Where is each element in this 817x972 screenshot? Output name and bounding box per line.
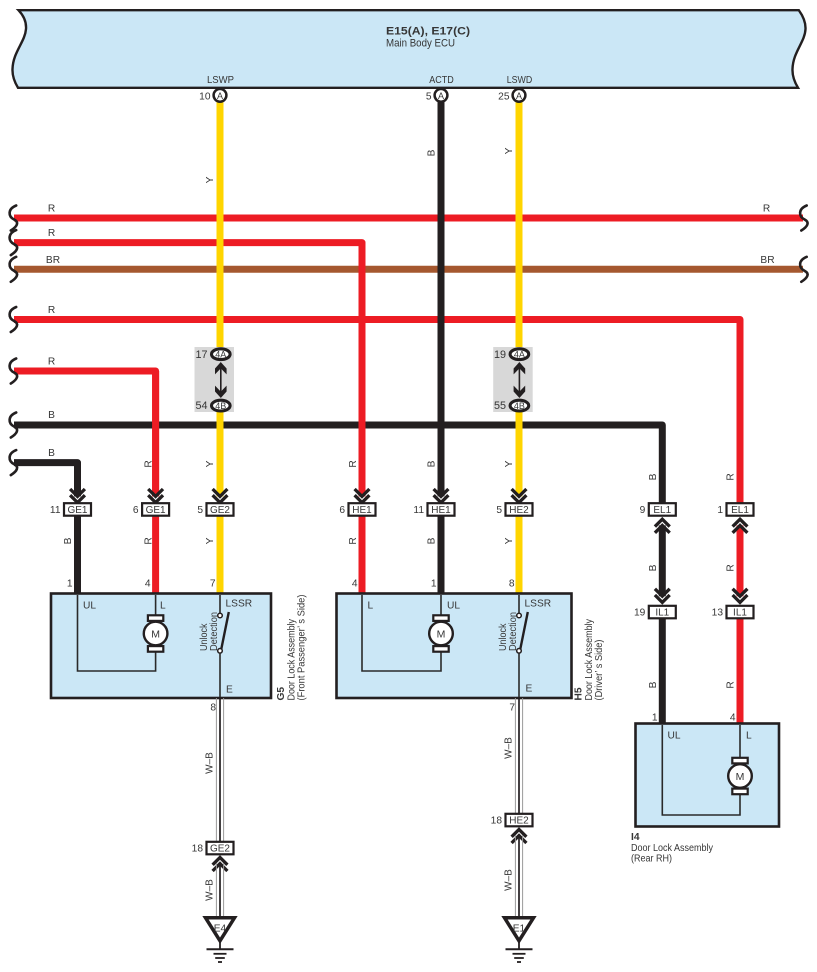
svg-text:Door Lock Assembly: Door Lock Assembly <box>631 843 713 854</box>
svg-text:4A: 4A <box>514 349 525 359</box>
svg-text:B: B <box>427 149 438 156</box>
svg-text:Y: Y <box>205 537 216 544</box>
svg-text:Y: Y <box>504 147 515 154</box>
wire I4 internal UL <box>662 725 740 815</box>
svg-text:4: 4 <box>145 579 151 590</box>
wire B6 (B, to 9 EL1) <box>14 410 662 504</box>
svg-text:E4: E4 <box>214 924 227 935</box>
connector 9 EL1 <box>640 503 676 533</box>
svg-text:EL1: EL1 <box>653 505 671 516</box>
svg-text:R: R <box>348 537 359 544</box>
box I4 Door Lock Assembly (Rear RH) <box>636 713 780 827</box>
svg-text:W–B: W–B <box>205 879 216 901</box>
svg-text:R: R <box>48 204 55 215</box>
motor M (I4) <box>728 758 752 794</box>
svg-text:R: R <box>763 204 770 215</box>
connector 11 HE1 <box>413 489 454 516</box>
svg-text:R: R <box>48 228 55 239</box>
svg-text:E: E <box>526 684 533 695</box>
svg-text:B: B <box>427 537 438 544</box>
svg-text:B: B <box>648 473 659 480</box>
ECU band E15/E17 <box>12 10 805 88</box>
svg-text:G5: G5 <box>276 687 287 701</box>
svg-text:UL: UL <box>447 601 460 612</box>
svg-text:BR: BR <box>46 255 60 266</box>
svg-text:W–B: W–B <box>504 869 515 891</box>
wire I4 motor top <box>739 725 741 759</box>
svg-text:R: R <box>726 473 737 480</box>
box H5 Door Lock Assembly (Driver's Side) <box>337 579 572 699</box>
svg-text:H5: H5 <box>574 687 585 700</box>
wire W-B (18 GE2 to E4) <box>205 864 224 918</box>
svg-text:LSSR: LSSR <box>525 599 552 610</box>
svg-text:E15(A), E17(C): E15(A), E17(C) <box>386 26 470 38</box>
wire Y (4B to 5 HE2) <box>504 408 519 496</box>
svg-text:19: 19 <box>494 349 506 361</box>
wire G5 internal UL <box>78 595 156 671</box>
svg-text:LSSR: LSSR <box>226 599 253 610</box>
wire Y (5 GE2 to G5) <box>205 516 220 595</box>
svg-text:1: 1 <box>652 713 658 724</box>
connector 6 GE1 <box>133 489 169 516</box>
wire W-B (H5 E to 18 HE2) <box>504 698 523 814</box>
svg-text:1: 1 <box>431 579 437 590</box>
connector 1 EL1 <box>717 503 753 533</box>
wire H5 internal L <box>362 595 441 671</box>
svg-text:19: 19 <box>634 608 646 619</box>
svg-text:BR: BR <box>760 255 774 266</box>
svg-text:55: 55 <box>494 400 506 412</box>
wire Y (4B to 5 GE2) <box>205 408 220 496</box>
pin 5 A (ACTD) <box>426 89 448 103</box>
label I4 <box>631 832 713 865</box>
wire G5 motor top <box>155 595 157 616</box>
svg-text:UL: UL <box>83 601 96 612</box>
svg-text:L: L <box>746 731 752 742</box>
wire BR (full width) <box>14 255 803 269</box>
svg-text:B: B <box>48 410 55 421</box>
svg-text:B: B <box>648 564 659 571</box>
svg-text:M: M <box>151 628 160 640</box>
svg-text:Y: Y <box>504 537 515 544</box>
wire B (11 GE1 to G5) <box>63 516 78 595</box>
svg-text:17: 17 <box>195 349 207 361</box>
switch LSSR (G5) unlock detection <box>199 595 229 697</box>
svg-text:4: 4 <box>730 713 736 724</box>
svg-text:Main Body ECU: Main Body ECU <box>386 38 455 50</box>
wire R3 (R, to 1 EL1) <box>14 305 740 504</box>
switch LSSR (H5) unlock detection <box>498 595 528 697</box>
svg-text:ACTD: ACTD <box>429 74 454 86</box>
svg-text:5: 5 <box>496 505 502 516</box>
svg-text:(Driver’ s Side): (Driver’ s Side) <box>594 640 605 701</box>
wire R (6 GE1 to G5) <box>144 516 156 595</box>
svg-text:M: M <box>437 628 446 640</box>
wire R4 (R, to 6 GE1) <box>14 357 156 497</box>
connector 18 GE2 <box>192 842 234 871</box>
svg-text:18: 18 <box>491 816 503 827</box>
svg-text:A: A <box>217 91 223 101</box>
wire R1 (R, full width) <box>14 204 803 219</box>
wire Y (LSWP to 4A) <box>205 101 220 352</box>
svg-text:R: R <box>144 537 155 544</box>
svg-text:HE1: HE1 <box>352 505 372 516</box>
ground E1 <box>505 918 534 962</box>
svg-text:5: 5 <box>426 92 432 103</box>
svg-text:1: 1 <box>67 579 73 590</box>
svg-text:A: A <box>438 91 444 101</box>
svg-text:8: 8 <box>509 579 515 590</box>
svg-text:E1: E1 <box>513 924 526 935</box>
svg-text:11: 11 <box>50 505 61 516</box>
svg-text:A: A <box>516 91 522 101</box>
wire Y (5 HE2 to H5) <box>504 516 519 595</box>
svg-text:11: 11 <box>413 505 424 516</box>
wire R4 vertical segment (over B) <box>152 371 159 496</box>
connector 13 IL1 <box>712 589 754 619</box>
svg-text:6: 6 <box>133 505 139 516</box>
svg-text:18: 18 <box>192 844 204 855</box>
svg-text:4B: 4B <box>514 401 525 411</box>
svg-text:7: 7 <box>509 703 515 714</box>
wire R2 (R, to 6 HE1) <box>14 228 362 496</box>
pin 25 A (LSWD) <box>498 89 525 103</box>
svg-text:8: 8 <box>210 703 216 714</box>
wire R3 vertical segment (over B) <box>737 320 744 505</box>
wire B (11 HE1 to H5) <box>427 516 442 595</box>
svg-text:GE2: GE2 <box>210 844 230 855</box>
svg-text:IL1: IL1 <box>733 608 747 619</box>
svg-text:LSWP: LSWP <box>207 74 234 86</box>
svg-text:4B: 4B <box>215 401 226 411</box>
svg-text:13: 13 <box>712 608 724 619</box>
svg-text:R: R <box>48 305 55 316</box>
svg-text:W–B: W–B <box>205 752 216 774</box>
svg-text:L: L <box>368 601 374 612</box>
label H5 side text <box>574 619 606 701</box>
svg-text:HE1: HE1 <box>431 505 451 516</box>
svg-text:Y: Y <box>205 460 216 467</box>
break squiggles right <box>800 206 807 231</box>
svg-text:R: R <box>726 681 737 688</box>
svg-text:EL1: EL1 <box>731 505 749 516</box>
svg-text:Detection: Detection <box>209 612 220 651</box>
wire W-B (G5 E to 18 GE2) <box>205 698 224 842</box>
svg-text:R: R <box>726 564 737 571</box>
connector 11 GE1 <box>50 489 91 516</box>
wire B (9 EL1 to 19 IL1) <box>648 525 662 596</box>
wire R (6 HE1 to H5) <box>348 460 362 594</box>
wire R (1 EL1 to 13 IL1) <box>726 473 741 596</box>
svg-text:Y: Y <box>504 460 515 467</box>
svg-text:I4: I4 <box>631 832 640 843</box>
svg-text:IL1: IL1 <box>655 608 669 619</box>
wire B7 (B, to 11 GE1) <box>14 448 78 496</box>
svg-text:6: 6 <box>339 505 345 516</box>
svg-text:L: L <box>160 601 166 612</box>
ground E4 <box>206 918 235 962</box>
svg-text:GE1: GE1 <box>67 505 87 516</box>
svg-text:HE2: HE2 <box>509 505 529 516</box>
svg-text:Y: Y <box>205 176 216 183</box>
svg-text:HE2: HE2 <box>509 816 529 827</box>
svg-text:UL: UL <box>668 731 681 742</box>
connector 4A/4B (17/54) <box>195 347 235 412</box>
svg-text:(Rear RH): (Rear RH) <box>631 854 672 865</box>
svg-text:(Front Passenger’ s Side): (Front Passenger’ s Side) <box>297 595 308 701</box>
wire R (13 IL1 to I4) <box>726 619 741 725</box>
svg-text:W–B: W–B <box>504 737 515 759</box>
wire B (ACTD to 11 HE1) <box>427 101 442 496</box>
pin 10 A (LSWP) <box>199 89 226 103</box>
svg-text:M: M <box>736 771 745 783</box>
connector 5 HE2 <box>496 489 532 516</box>
svg-text:GE1: GE1 <box>146 505 166 516</box>
wire H5 motor top <box>440 595 442 616</box>
motor M (H5) <box>429 615 453 651</box>
wire W-B (18 HE2 to E1) <box>504 836 523 918</box>
svg-text:54: 54 <box>195 400 207 412</box>
connector 4A/4B (19/55) <box>493 347 533 412</box>
label G5 side text <box>276 595 308 701</box>
connector 6 HE1 <box>339 489 375 516</box>
svg-text:10: 10 <box>199 92 211 103</box>
wire R2 vertical segment (over BR/B) <box>359 243 366 497</box>
svg-text:R: R <box>48 357 55 368</box>
connector 18 HE2 <box>491 814 533 843</box>
svg-text:7: 7 <box>210 579 216 590</box>
svg-text:GE2: GE2 <box>210 505 230 516</box>
svg-text:LSWD: LSWD <box>507 74 533 86</box>
wire Y (LSWD to 4A) <box>504 101 519 352</box>
connector 5 GE2 <box>197 489 233 516</box>
motor M (G5) <box>144 615 168 651</box>
svg-text:B: B <box>427 460 438 467</box>
svg-text:4A: 4A <box>215 349 226 359</box>
svg-text:9: 9 <box>640 505 646 516</box>
svg-text:1: 1 <box>717 505 723 516</box>
svg-text:B: B <box>48 448 55 459</box>
svg-text:B: B <box>63 537 74 544</box>
break squiggles left <box>10 206 17 231</box>
wire B (19 IL1 to I4) <box>648 619 662 725</box>
box G5 Door Lock Assembly (Front Passenger's Side) <box>51 579 271 699</box>
svg-text:E: E <box>226 685 233 696</box>
svg-text:25: 25 <box>498 92 510 103</box>
connector 19 IL1 <box>634 589 676 619</box>
svg-text:4: 4 <box>352 579 358 590</box>
svg-text:R: R <box>348 460 359 467</box>
svg-text:Detection: Detection <box>508 612 519 651</box>
svg-text:5: 5 <box>197 505 203 516</box>
svg-text:B: B <box>648 681 659 688</box>
